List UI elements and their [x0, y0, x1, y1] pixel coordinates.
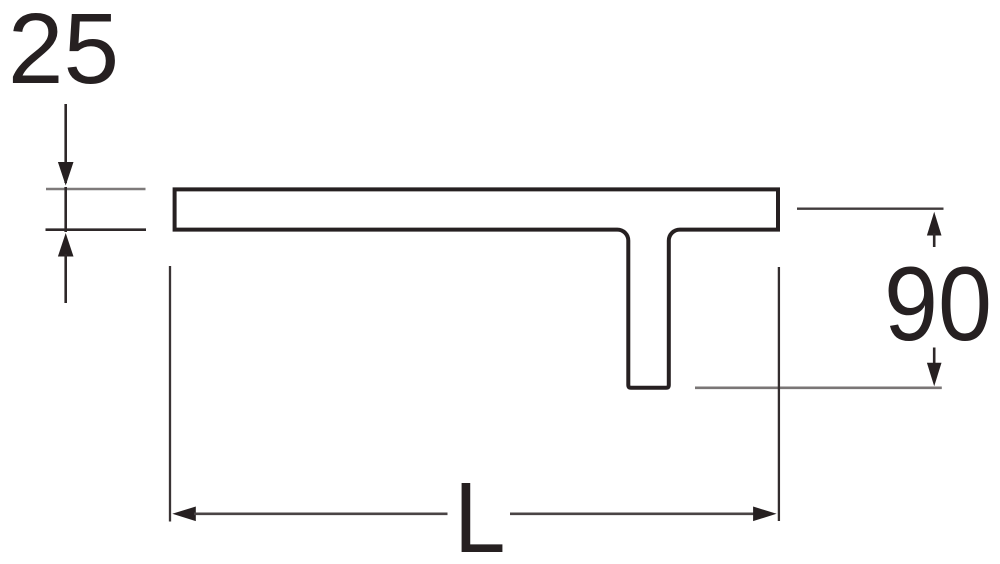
- dim 90: extension line top: [797, 208, 944, 210]
- dim 25: middle segment of dimension line: [64, 187, 67, 232]
- dim 90: upper dimension line tail: [933, 233, 936, 247]
- dim 25: upper dimension line: [64, 104, 67, 183]
- dim L: extension line left: [169, 266, 171, 522]
- dim L: right arrowhead: [753, 507, 777, 522]
- dim 25: lower arrowhead (up): [58, 233, 74, 257]
- dim 25: lower dimension line tail: [64, 254, 67, 303]
- dim 90: lower dimension line: [933, 348, 936, 365]
- dim 90: upper arrowhead (up): [927, 212, 942, 236]
- dim 25: extension line top: [46, 188, 146, 191]
- part outline (T-shaped bracket): [175, 189, 778, 387]
- dim 90: extension line bottom: [695, 386, 942, 389]
- dim L: dimension line left segment: [194, 512, 448, 515]
- dim 90: lower arrowhead (down): [927, 363, 942, 387]
- dim 25: upper arrowhead (down): [58, 162, 74, 186]
- dim L: extension line right: [778, 267, 780, 521]
- dim L: dimension line right segment: [510, 512, 755, 515]
- svg-text:L: L: [454, 462, 506, 564]
- svg-text:25: 25: [8, 0, 119, 105]
- dim 25: extension line bottom: [46, 228, 147, 231]
- svg-text:90: 90: [884, 246, 992, 363]
- dim L: left arrowhead: [172, 507, 196, 522]
